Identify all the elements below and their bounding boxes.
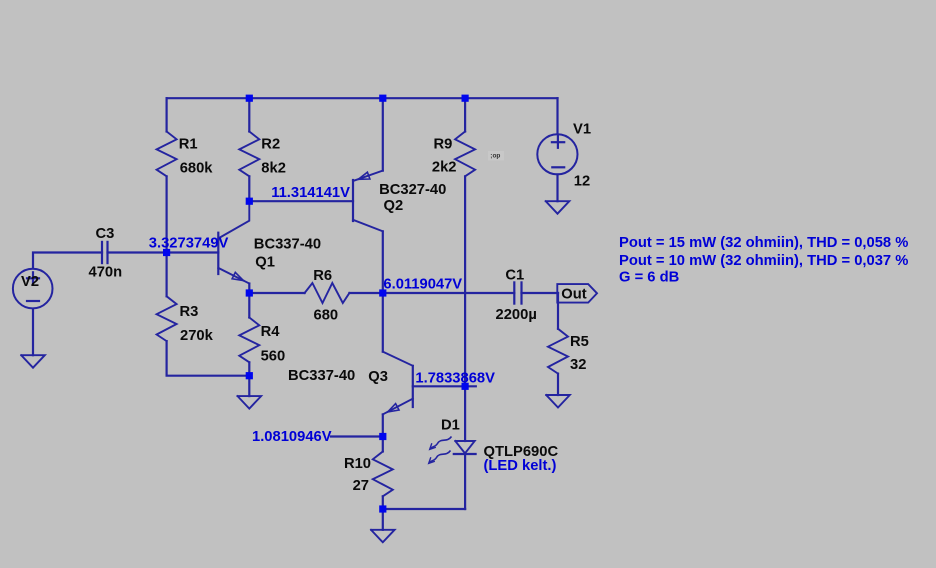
wire R10 bottom lead (382, 496, 384, 509)
wire R2 bottom lead (248, 176, 250, 201)
svg-text:BC337-40: BC337-40 (288, 368, 355, 384)
resistor R1 (157, 132, 177, 177)
svg-text:3.3273749V: 3.3273749V (149, 235, 229, 251)
svg-text:Pout = 10 mW (32 ohmiin), THD: Pout = 10 mW (32 ohmiin), THD = 0,037 % (619, 253, 908, 269)
resistor R6 (305, 283, 350, 303)
ground under V1 (546, 201, 570, 214)
wire node to Q3 collector (382, 293, 384, 352)
wire R3 bottom to ground node (167, 341, 250, 376)
wire R6 left lead (249, 292, 304, 294)
svg-text:R9: R9 (433, 136, 452, 152)
svg-text:R2: R2 (261, 136, 280, 152)
resistor R3 (157, 296, 177, 341)
svg-text:1.7833868V: 1.7833868V (415, 370, 495, 386)
svg-text:Out: Out (561, 287, 586, 303)
ground under R3/R4 (238, 396, 262, 409)
svg-text:BC327-40: BC327-40 (379, 182, 446, 198)
resistor R5 (548, 329, 568, 374)
svg-text:C3: C3 (96, 226, 115, 242)
svg-text:(LED kelt.): (LED kelt.) (484, 458, 557, 474)
wire R9 bottom lead to Q3 base node (464, 176, 466, 386)
resistor R10 (373, 452, 393, 497)
svg-text:1.0810946V: 1.0810946V (252, 429, 332, 445)
wire R4 bottom lead (248, 362, 250, 375)
svg-text:680: 680 (314, 307, 339, 323)
junction bus/R2 (246, 95, 253, 102)
junction R10/LED/ground (379, 505, 386, 512)
wire C1 left lead (383, 292, 515, 294)
wire Q1 base (167, 251, 219, 253)
resistor R9 (455, 132, 475, 177)
resistor R2 (239, 132, 259, 177)
svg-text:R1: R1 (179, 136, 198, 152)
svg-text:R6: R6 (313, 268, 332, 284)
svg-text:V1: V1 (573, 122, 591, 138)
svg-text:470n: 470n (89, 264, 123, 280)
svg-text:Q1: Q1 (255, 255, 275, 271)
junction bus/Q2 emitter (379, 95, 386, 102)
wire Q1 emitter to R6 node (248, 284, 250, 294)
junction bus/R9 (462, 95, 469, 102)
svg-text:12: 12 (574, 174, 590, 190)
wire bottom LED to R10 node (383, 508, 465, 510)
svg-text:6.0119047V: 6.0119047V (383, 277, 462, 293)
svg-text:2k2: 2k2 (432, 159, 457, 175)
wire ground stem under R3/R4 (248, 376, 250, 396)
svg-text:560: 560 (261, 348, 286, 364)
wire Q2 collector to node 6.0119047V (382, 231, 384, 293)
svg-text:;op: ;op (490, 152, 500, 159)
svg-text:Q3: Q3 (368, 369, 388, 385)
output port flag Out (557, 284, 597, 303)
svg-text:R5: R5 (570, 334, 589, 350)
voltage source V2 (13, 269, 53, 309)
node 1.7833868V junction (462, 383, 469, 390)
wire R2 top lead (248, 98, 250, 131)
wire Q2 base (node 11.314141V) (249, 200, 353, 202)
wire V1 bottom lead (556, 174, 558, 201)
node 6.0119047V junction (379, 289, 386, 296)
svg-text:2200µ: 2200µ (496, 307, 537, 323)
svg-text:R10: R10 (344, 456, 371, 472)
svg-text:C1: C1 (505, 268, 524, 284)
wire D1 cathode lead (464, 454, 466, 509)
LED D1 (455, 441, 474, 453)
voltage source V1 (537, 134, 577, 174)
wire V2 bottom lead (32, 309, 34, 355)
wire R1 top lead (166, 98, 168, 131)
svg-text:680k: 680k (180, 160, 214, 176)
wire V2 to C3 (33, 253, 102, 269)
wire top supply bus (167, 97, 558, 99)
node 3.3273749V junction (163, 249, 170, 256)
transistor Q1 BC337-40 (217, 233, 219, 274)
wire R9 top lead (464, 98, 466, 131)
wire R4 top lead (248, 293, 250, 318)
capacitor C1 (513, 282, 515, 303)
svg-text:D1: D1 (441, 417, 460, 433)
wire R1 bottom lead (166, 176, 168, 252)
svg-text:32: 32 (570, 357, 586, 373)
svg-text:27: 27 (353, 478, 369, 494)
ground under V2 (21, 355, 45, 368)
svg-text:BC337-40: BC337-40 (254, 236, 321, 252)
wire node stub 1.0810946V (331, 435, 383, 437)
spice directive ;op (488, 151, 504, 161)
wire V1 top lead (556, 98, 558, 133)
wire D1 anode lead (464, 386, 466, 441)
ground under R5 (546, 395, 570, 408)
svg-text:G = 6 dB: G = 6 dB (619, 270, 679, 286)
node 11.314141V junction (246, 198, 253, 205)
capacitor C3 (101, 242, 103, 263)
ground under R10 (371, 530, 395, 543)
wire C1 to Out flag (522, 292, 559, 294)
svg-text:V2: V2 (21, 274, 39, 290)
wire Q3 emitter to node (382, 414, 384, 436)
wire R5 bottom lead (557, 374, 559, 395)
svg-text:Q2: Q2 (384, 198, 404, 214)
svg-text:R3: R3 (180, 304, 199, 320)
svg-text:8k2: 8k2 (261, 160, 286, 176)
svg-text:11.314141V: 11.314141V (271, 185, 350, 201)
resistor R4 (239, 318, 259, 363)
wire C3 to input node (108, 251, 167, 253)
transistor Q3 BC337-40 (412, 366, 414, 407)
svg-text:Pout = 15 mW (32 ohmiin), THD: Pout = 15 mW (32 ohmiin), THD = 0,058 % (619, 235, 908, 251)
wire ground stem under R10 (382, 509, 384, 530)
wire Q2 emitter to bus (382, 98, 384, 170)
svg-text:270k: 270k (180, 328, 214, 344)
wire Out node down to R5 (557, 293, 559, 329)
svg-text:R4: R4 (261, 324, 281, 340)
wire R10 top lead (382, 437, 384, 452)
junction Q1 emitter/R4/R6 (246, 289, 253, 296)
junction R3/R4/ground (246, 372, 253, 379)
wire R3 top lead (166, 253, 168, 297)
transistor Q2 BC327-40 (352, 180, 354, 221)
wire R6 right lead (349, 292, 382, 294)
node 1.0810946V junction (379, 433, 386, 440)
